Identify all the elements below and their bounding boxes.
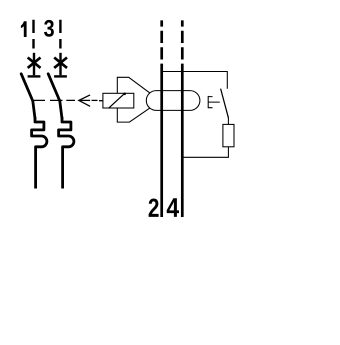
resistor R	[223, 124, 234, 146]
pole 3 dashed terminal lead	[59, 20, 61, 49]
pole 1 contact cross	[28, 58, 41, 68]
trip linkage dashed line	[34, 99, 75, 101]
relay U1 rectangle	[103, 93, 134, 108]
resistor top stub	[227, 118, 229, 124]
funnel upper link	[117, 77, 150, 93]
relay diagonal armature	[109, 93, 125, 108]
test circuit top wire	[162, 72, 227, 89]
wire 4 dashed top	[181, 20, 184, 59]
pole 1 contact stem	[33, 53, 35, 75]
pole 1 fixed contact bar	[28, 75, 41, 77]
pole 3 contact cross	[54, 58, 67, 68]
trip linkage dash to relay	[92, 99, 98, 101]
trip linkage arrow tail	[81, 99, 91, 101]
pole 1 switch blade	[21, 74, 35, 119]
relay armature pivot dot	[123, 93, 126, 96]
test switch blade	[221, 89, 229, 119]
terminal label 2	[149, 199, 159, 217]
trip linkage arrow	[79, 95, 90, 106]
toroid current transformer	[146, 91, 200, 111]
wire 4	[181, 64, 184, 217]
pole 1 thermal trip element	[32, 117, 47, 189]
terminal label 3	[44, 20, 54, 37]
terminal label 1	[21, 21, 27, 37]
pole 3 contact stem	[59, 53, 61, 75]
pole 3 switch blade	[48, 74, 62, 119]
pole 1 dashed terminal lead	[32, 20, 34, 49]
funnel lower link	[117, 108, 150, 122]
pole 3 thermal trip element	[59, 117, 74, 189]
pole 3 fixed contact bar	[54, 75, 67, 77]
wire 2 dashed top	[160, 20, 163, 59]
wire 2	[160, 64, 163, 217]
resistor bottom return wire	[182, 147, 228, 158]
terminal label 4	[167, 198, 179, 217]
test button E	[208, 96, 220, 108]
relay left stub	[99, 100, 103, 102]
